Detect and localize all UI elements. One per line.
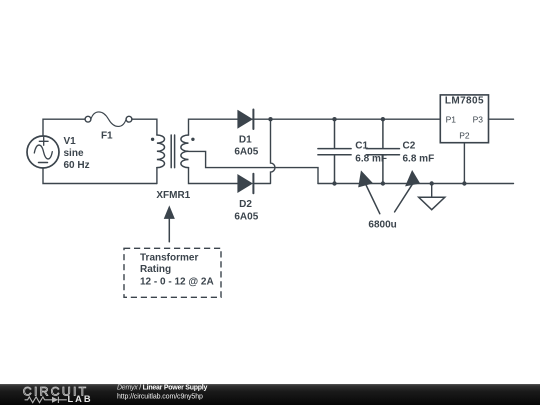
- node D1 D2 junction: [268, 117, 272, 121]
- svg-text:http://circuitlab.com/c9ny5hp: http://circuitlab.com/c9ny5hp: [117, 394, 203, 401]
- footer bar: [0, 384, 540, 405]
- node C2 top: [381, 117, 385, 121]
- callout arrow left (6800u to C1): [359, 172, 380, 214]
- fuse F1: [85, 112, 132, 127]
- capacitor C1: [318, 119, 351, 183]
- svg-text:60 Hz: 60 Hz: [64, 160, 90, 171]
- svg-text:P2: P2: [459, 130, 470, 140]
- svg-text:12 - 0 - 12 @ 2A: 12 - 0 - 12 @ 2A: [140, 277, 214, 288]
- wire D1 to regulator (top rail): [252, 118, 440, 120]
- svg-text:6800u: 6800u: [368, 220, 396, 231]
- node C1 top: [332, 117, 336, 121]
- wire bottom rail: [318, 183, 514, 185]
- svg-text:6A05: 6A05: [234, 211, 258, 222]
- svg-text:XFMR1: XFMR1: [156, 190, 190, 201]
- svg-text:D1: D1: [239, 135, 252, 146]
- svg-text:D2: D2: [239, 199, 252, 210]
- svg-text:Transformer: Transformer: [140, 253, 198, 264]
- callout arrow right (6800u to C2): [395, 171, 420, 212]
- node P2 ground: [462, 181, 466, 185]
- wire secondary bottom to D2: [189, 168, 238, 184]
- transformer core: [171, 135, 174, 168]
- diode D2: [238, 174, 254, 194]
- svg-text:C2: C2: [403, 141, 416, 152]
- svg-text:LAB: LAB: [68, 394, 93, 404]
- node C2 bottom: [381, 181, 385, 185]
- svg-text:V1: V1: [64, 136, 77, 147]
- svg-text:Rating: Rating: [140, 264, 171, 275]
- svg-text:Demyx / Linear Power Supply: Demyx / Linear Power Supply: [117, 384, 207, 391]
- regulator U1 LM7805: [440, 95, 488, 143]
- pin P3 wire: [489, 118, 514, 120]
- svg-text:C1: C1: [355, 141, 368, 152]
- wire primary bottom: [156, 168, 158, 184]
- node C1 bottom: [332, 181, 336, 185]
- pin labels: [446, 115, 484, 141]
- svg-text:sine: sine: [64, 148, 84, 159]
- capacitor C2: [366, 119, 399, 183]
- annotation box transformer rating: [124, 248, 221, 297]
- svg-text:LM7805: LM7805: [445, 95, 484, 106]
- wire secondary top to D1: [189, 119, 238, 135]
- svg-text:P1: P1: [446, 115, 457, 125]
- wire fuse to transformer: [132, 119, 157, 135]
- diode D1: [238, 110, 254, 130]
- svg-text:6.8 mF: 6.8 mF: [355, 154, 387, 165]
- annotation arrow to XFMR1: [165, 207, 175, 242]
- svg-text:6A05: 6A05: [234, 146, 258, 157]
- node ground junction: [430, 181, 434, 185]
- ground: [419, 184, 445, 210]
- polarity dot primary: [151, 138, 154, 141]
- voltage source V1: [27, 136, 59, 168]
- wire V1 top to rail: [43, 119, 85, 136]
- wire D2 output up to top rail with hop: [254, 119, 275, 183]
- wire center tap: [189, 151, 319, 183]
- CircuitLab logo wordmark: [23, 385, 93, 405]
- transformer XFMR1 primary winding: [157, 135, 165, 168]
- transformer XFMR1 secondary winding: [181, 135, 189, 168]
- wire V1 bottom: [43, 168, 157, 184]
- pin P2 wire: [463, 143, 465, 184]
- svg-text:6.8 mF: 6.8 mF: [403, 154, 435, 165]
- svg-text:P3: P3: [473, 115, 484, 125]
- polarity dot secondary: [191, 138, 194, 141]
- svg-text:F1: F1: [101, 131, 113, 142]
